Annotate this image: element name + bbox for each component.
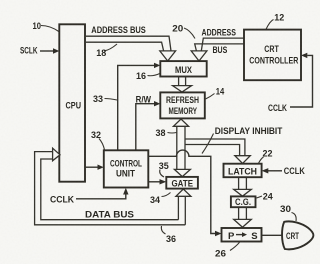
block C.G. (24) bbox=[231, 196, 256, 207]
SCLK input wire with arrowhead into CPU bbox=[40, 48, 59, 53]
reference numeral 18 leader line bbox=[104, 44, 117, 51]
block CONTROL UNIT (32) bbox=[104, 150, 149, 187]
data bus 38: refresh memory to gate (double-headed open arrow) bbox=[173, 119, 190, 177]
wire: CPU to control unit bbox=[85, 165, 104, 170]
bus: C.G. to P-S converter (open arrow) bbox=[234, 207, 252, 227]
wire 35: control unit to gate bbox=[149, 179, 167, 184]
address bus 20: CRT controller to MUX (double-rail with open arrowhead) bbox=[191, 38, 244, 61]
bus: latch to character generator (open arrow) bbox=[234, 177, 252, 196]
CRT envelope (30) bbox=[282, 221, 313, 249]
bus: gate to data bus (open arrow up into gate) bbox=[176, 189, 191, 225]
wire: P-S converter to CRT bbox=[262, 234, 282, 236]
data bus 36 (double line) with CPU branch bbox=[35, 148, 186, 225]
reference numeral 22 leader line bbox=[259, 157, 264, 163]
reference numeral 14 leader line bbox=[206, 94, 215, 100]
block MUX (16) bbox=[160, 61, 206, 76]
bus: MUX to refresh memory (open arrow) bbox=[173, 77, 192, 93]
CCLK wire into latch right edge bbox=[262, 168, 282, 173]
reference numeral 32 leader line bbox=[99, 139, 105, 150]
bus: refresh memory output to latch (double rail into open arrowhead) bbox=[185, 139, 250, 164]
wire 33: control unit to MUX select bbox=[118, 63, 161, 150]
address bus 18: CPU to MUX (double-rail with open arrowhead) bbox=[86, 36, 176, 61]
reference numeral 26 leader line bbox=[230, 242, 240, 250]
reference numeral 36 leader line bbox=[161, 226, 165, 234]
reference numeral 10 leader line bbox=[41, 26, 59, 32]
reference numeral 33 leader line bbox=[105, 99, 118, 101]
reference numeral 35 leader line bbox=[160, 170, 164, 178]
block REFRESH MEMORY (14) bbox=[160, 92, 205, 118]
CCLK wire into control unit bottom bbox=[76, 188, 129, 199]
reference numeral 24 leader line bbox=[257, 196, 263, 198]
reference numeral 20 leader line bbox=[184, 28, 195, 39]
reference numeral 16 leader line bbox=[148, 74, 160, 76]
R/W wire: control unit to refresh memory bbox=[136, 101, 161, 150]
label DISPLAY INHIBIT leader curve bbox=[202, 134, 214, 154]
reference numeral 34 leader line bbox=[162, 193, 171, 197]
block CPU (10) bbox=[59, 24, 85, 181]
block P to S converter (26) bbox=[222, 228, 262, 242]
reference numeral 30 leader line bbox=[292, 213, 297, 222]
reference numeral 12 leader line bbox=[266, 20, 274, 30]
block CRT CONTROLLER (12) bbox=[244, 30, 301, 81]
CCLK wire into CRT controller right edge bbox=[290, 53, 313, 107]
block LATCH (22) bbox=[224, 164, 262, 178]
reference numeral 38 leader line bbox=[168, 132, 177, 135]
display inhibit wire: control unit to P-S converter (hops over bus) bbox=[149, 150, 222, 236]
block GATE (34) bbox=[166, 177, 198, 190]
